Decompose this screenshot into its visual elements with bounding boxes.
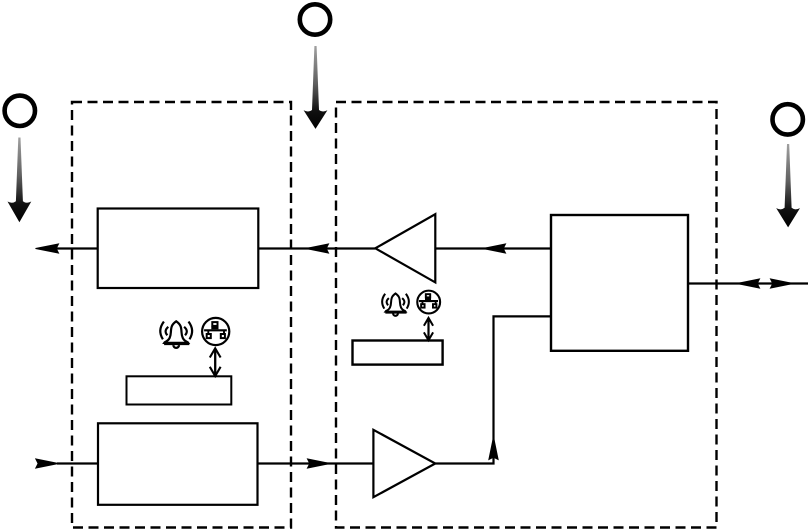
amplifier: top triangle pointing left xyxy=(375,214,435,282)
big block (right rectangle) xyxy=(551,215,688,351)
icon: left network circle xyxy=(202,318,229,345)
wire: big block right bidirectional line xyxy=(688,282,808,284)
label box right xyxy=(353,341,443,365)
label box left xyxy=(127,376,232,404)
icon: right network circle xyxy=(417,291,440,314)
arrowhead: input tip pointing right xyxy=(36,459,59,468)
arrowhead: left output tip xyxy=(36,244,59,253)
zone: left dashed box xyxy=(72,102,291,528)
arrowhead: bidirectional right xyxy=(771,279,794,288)
amplifier: bottom triangle pointing right xyxy=(373,430,435,497)
wire: big block to top amplifier xyxy=(435,247,551,249)
gradient arrow: left pointer xyxy=(8,138,32,223)
icon: right alarm bell xyxy=(382,293,409,315)
arrowhead: bidirectional left xyxy=(737,279,760,288)
arrow: left double-headed link xyxy=(210,348,221,376)
arrowhead: into top amplifier xyxy=(483,244,506,253)
gradient arrow: top pointer xyxy=(304,46,328,129)
block B (bottom-left rectangle) xyxy=(98,423,258,505)
arrowhead: up into big block xyxy=(489,437,498,460)
arrowhead: into bottom amplifier xyxy=(308,459,331,468)
wire: bottom amplifier to big block (L-shaped) xyxy=(435,316,551,463)
node circle: left xyxy=(5,96,35,126)
wire: output left from block A xyxy=(50,247,98,249)
wire: top amplifier to block A xyxy=(259,247,376,249)
node circle: top xyxy=(300,4,330,34)
node circle: right xyxy=(773,104,803,134)
wire: input into block B xyxy=(57,462,98,464)
icon: left alarm bell xyxy=(160,321,192,348)
block A (top-left rectangle) xyxy=(98,209,259,289)
wire: block B to bottom amplifier xyxy=(258,462,374,464)
arrowhead: into block A xyxy=(306,244,329,253)
arrow: right double-headed link xyxy=(424,318,433,340)
gradient arrow: right pointer xyxy=(776,144,800,227)
zone: right dashed box xyxy=(336,102,717,528)
